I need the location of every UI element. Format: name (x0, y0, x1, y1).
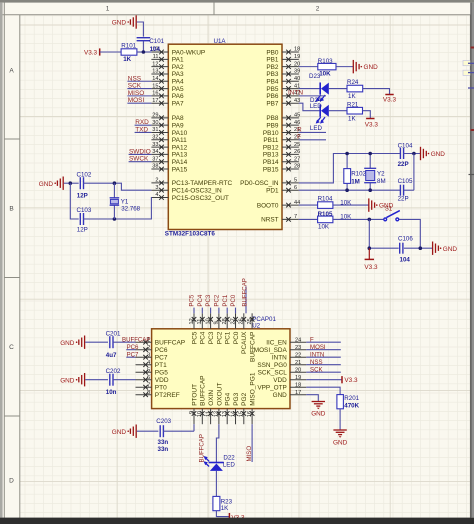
U2 pin 10 BUFFCAP (bottom) (197, 375, 207, 424)
svg-text:MOSI_SDA: MOSI_SDA (254, 347, 288, 354)
U1A pin 4 PC15-OSC32_OUT (151, 192, 229, 202)
svg-text:2: 2 (316, 6, 320, 13)
svg-text:PC15-OSC32_OUT: PC15-OSC32_OUT (172, 195, 229, 202)
wire R stub (PB10) (299, 131, 326, 133)
svg-text:F: F (310, 336, 314, 343)
wire BOOT0 to R104 (299, 204, 318, 206)
svg-text:15: 15 (152, 83, 158, 89)
value 470K (R201) (344, 402, 359, 409)
svg-text:32: 32 (152, 134, 158, 140)
U2 pin 7 PT0 (136, 382, 168, 391)
svg-text:PA3: PA3 (172, 71, 184, 78)
U1A pin 22 PB11 (263, 134, 300, 144)
value 10K (R104) (340, 199, 352, 206)
crystal Y1 (110, 183, 120, 219)
U1A pin 16 PA6 (151, 91, 184, 101)
svg-text:R103: R103 (318, 58, 333, 65)
svg-text:MOSI: MOSI (310, 344, 326, 351)
svg-text:PC3: PC3 (205, 294, 212, 306)
svg-text:45: 45 (294, 113, 300, 119)
svg-text:S1: S1 (385, 206, 393, 213)
resistor R201 (337, 395, 344, 409)
value 12P (C103) (77, 227, 88, 234)
designator Y1 (121, 198, 129, 205)
power V3.3 (R24) (383, 95, 397, 104)
svg-text:4: 4 (155, 192, 158, 198)
U2 pin 25 BUFFCAP (top) (247, 313, 257, 362)
designator C102 (77, 171, 92, 178)
wire R24 to V3.3 (363, 89, 390, 95)
svg-text:STM32F103C8T6: STM32F103C8T6 (165, 231, 216, 238)
node NRST junction (368, 218, 372, 222)
U2 pin 6 VDD (136, 375, 169, 384)
svg-text:PB0: PB0 (266, 49, 279, 56)
svg-text:11: 11 (205, 411, 211, 417)
power V3.3 (R23) (229, 513, 245, 521)
svg-text:26: 26 (239, 318, 245, 324)
net label PC1 (U2 top) (222, 294, 229, 306)
wire GND node down to C103 (70, 183, 78, 219)
net label NSS (128, 75, 141, 82)
svg-text:PA8: PA8 (172, 115, 184, 122)
wire NSS stub (127, 80, 151, 82)
value PCAP01 (252, 316, 276, 323)
designator Y2 (377, 171, 385, 178)
power GND (C106) (433, 242, 458, 255)
svg-text:PA14: PA14 (172, 159, 188, 166)
svg-text:BUFFCAP: BUFFCAP (241, 278, 248, 306)
capacitor C104 (400, 148, 403, 159)
wire pin18 to R201 (306, 387, 340, 394)
svg-text:C202: C202 (106, 368, 121, 375)
svg-text:C106: C106 (398, 236, 413, 243)
svg-text:37: 37 (152, 156, 158, 162)
svg-text:PC6: PC6 (155, 347, 168, 354)
U1A pin 21 PB10 (263, 127, 300, 137)
svg-text:1M: 1M (351, 179, 360, 186)
svg-text:B: B (9, 206, 13, 213)
svg-text:PC1: PC1 (222, 294, 229, 306)
earth ground (R201) (333, 430, 348, 446)
svg-text:PB13: PB13 (263, 152, 279, 159)
svg-text:33n: 33n (158, 446, 169, 453)
wire stub crossing right edge 3 (468, 87, 474, 89)
value 22P (C105) (398, 196, 409, 203)
U2 pin 19 VDD (273, 375, 306, 384)
op-amp U1A (STM32 MCU body) (168, 44, 282, 229)
svg-text:GND: GND (60, 340, 75, 347)
designator C203 (156, 418, 171, 425)
svg-text:PD1: PD1 (266, 188, 279, 195)
wire PC6 stub (U2 left) (126, 349, 135, 351)
svg-text:R: R (297, 126, 302, 133)
svg-text:PB7: PB7 (266, 100, 279, 107)
svg-text:PC6: PC6 (127, 344, 139, 351)
svg-text:27: 27 (230, 318, 236, 324)
U2 pin 28 PC1 (top) (222, 313, 232, 344)
net label MISO (U2 bottom) (246, 446, 253, 462)
resistor R105 (318, 216, 333, 223)
resistor R103 (318, 63, 336, 69)
svg-text:1K: 1K (221, 505, 229, 512)
svg-text:9: 9 (189, 411, 195, 414)
svg-text:2: 2 (155, 178, 158, 184)
net label RXD (135, 119, 149, 126)
wire SWDIO stub (129, 153, 152, 155)
wire C103 to Y1 bottom node (84, 218, 115, 220)
svg-text:PA12: PA12 (172, 144, 188, 151)
wire R101 to PA0 (137, 51, 152, 53)
wire PD0 to oscillator rail (299, 154, 400, 183)
wire GND to C201 (85, 341, 108, 343)
svg-text:GND: GND (431, 151, 446, 158)
svg-text:PA4: PA4 (172, 79, 184, 86)
U1A pin 18 PB0 (266, 47, 300, 57)
svg-text:22P: 22P (398, 161, 409, 168)
comment LED (second) (310, 125, 323, 132)
U2 pin 8 PT2REF (136, 390, 180, 399)
svg-text:10n: 10n (106, 389, 117, 396)
svg-text:12P: 12P (77, 192, 88, 199)
value 10n (106, 389, 117, 396)
value 1K (R101) (123, 56, 131, 63)
U1A pin 41 PB5 (266, 83, 300, 93)
net label NSS (U2 right) (310, 359, 323, 366)
svg-text:33: 33 (152, 142, 158, 148)
svg-text:20: 20 (295, 367, 301, 373)
designator C103 (77, 207, 92, 214)
LED D23 (316, 82, 329, 101)
power V3.3 (below C106 node) (364, 248, 378, 271)
net label PC6 (U2 left) (127, 344, 139, 351)
U1A pin 25 PB12 (263, 142, 300, 152)
U1A pin 43 PB7 (266, 98, 300, 108)
svg-text:PC7: PC7 (127, 351, 139, 358)
svg-text:C101: C101 (149, 38, 164, 45)
svg-text:PG5: PG5 (155, 370, 168, 377)
svg-text:GND: GND (60, 377, 75, 384)
svg-text:OXOUT: OXOUT (216, 383, 223, 406)
svg-text:PC5: PC5 (191, 331, 198, 344)
value 10K (R103) (319, 71, 331, 78)
svg-text:12: 12 (214, 411, 220, 417)
svg-text:GND: GND (112, 20, 127, 27)
wire PC1 stub (U2 top) (226, 308, 228, 314)
svg-text:PG2: PG2 (241, 392, 248, 405)
svg-text:A: A (9, 68, 14, 75)
value 8M (Y2) (377, 178, 386, 185)
net label PC2 (U2 top) (214, 294, 221, 306)
U2 pin 17 GND (273, 390, 307, 399)
U1A pin 32 PA11 (151, 134, 187, 144)
power V3.3 (R101) (84, 48, 100, 56)
svg-text:D23: D23 (309, 73, 321, 80)
svg-text:5: 5 (294, 178, 297, 184)
svg-text:PA0-WKUP: PA0-WKUP (172, 49, 205, 56)
wire MOSI stub (U2 right) (306, 349, 341, 351)
svg-text:13: 13 (152, 69, 158, 75)
svg-text:14: 14 (152, 76, 158, 82)
designator C106 (398, 236, 413, 243)
svg-text:SWCK: SWCK (129, 156, 149, 163)
net label MISO (128, 90, 144, 97)
power GND (R104) (369, 198, 394, 211)
U1A pin 19 PB1 (266, 54, 300, 64)
U1A pin 31 PA10 (151, 127, 187, 137)
designator R103 (318, 58, 333, 65)
svg-text:PG4: PG4 (225, 392, 232, 405)
svg-text:PC13-TAMPER-RTC: PC13-TAMPER-RTC (172, 180, 233, 187)
U1A pin 11 PA1 (151, 54, 184, 64)
svg-text:1: 1 (106, 6, 110, 13)
value 10K right (R105) (340, 214, 352, 221)
net label TXD (135, 126, 148, 133)
wire GND to node (64, 182, 71, 184)
U1A pin 10 PA0-WKUP (151, 47, 205, 57)
wire NRST to R105 (299, 218, 318, 220)
svg-text:PA11: PA11 (172, 137, 187, 144)
capacitor C201 (110, 336, 113, 348)
net label PC0 (U2 top) (230, 294, 237, 306)
designator R104 (318, 196, 333, 203)
svg-text:MISO_PG1: MISO_PG1 (250, 372, 257, 406)
wire PC0 stub (U2 top) (235, 308, 237, 314)
designator C202 (106, 368, 121, 375)
power GND (top, C101) (112, 15, 136, 28)
svg-text:RXD: RXD (135, 119, 149, 126)
U2 pin 15 PG2 (bottom) (239, 392, 249, 424)
svg-text:PB11: PB11 (263, 137, 279, 144)
svg-text:PB5: PB5 (266, 86, 279, 93)
capacitor C202 (110, 374, 113, 386)
svg-text:30: 30 (152, 120, 158, 126)
oscillator rail junctions (345, 152, 372, 192)
svg-text:25: 25 (247, 318, 253, 324)
svg-text:C103: C103 (77, 207, 92, 214)
designator R23 (221, 498, 233, 505)
svg-text:21: 21 (295, 360, 301, 366)
power GND (C203) (112, 425, 136, 438)
value 4u7 (106, 352, 117, 359)
wire F stub (U2 right) (306, 341, 341, 343)
designator C201 (106, 330, 121, 337)
U2 pin 21 SSN_PG0 (257, 360, 306, 369)
svg-text:12: 12 (152, 61, 158, 67)
wire NSS stub (U2 right) (306, 364, 341, 366)
wire SCK stub (U2 right) (306, 371, 341, 373)
LED D24 (316, 105, 329, 124)
svg-text:38: 38 (152, 164, 158, 170)
wire V3.3 to R101 (100, 51, 121, 53)
U2 pin 2 PC6 (136, 345, 168, 354)
designator S1 (385, 206, 393, 213)
svg-text:22: 22 (295, 352, 301, 358)
svg-text:PB1: PB1 (266, 57, 279, 64)
svg-text:TXD: TXD (135, 126, 148, 133)
net label PC7 (U2 left) (127, 351, 139, 358)
window left strip (0, 3, 3, 518)
wire PC3 stub (U2 top) (210, 308, 212, 314)
wire R105 to S1 (333, 218, 383, 220)
U1A pin 20 PB2 (266, 61, 300, 71)
U1A pin 17 PA7 (151, 98, 184, 108)
svg-text:C105: C105 (398, 178, 413, 185)
wire C105 to GND riser (404, 154, 414, 191)
net label INTN (U2 right) (310, 351, 324, 358)
crystal Y2 (364, 154, 376, 191)
svg-text:4u7: 4u7 (106, 352, 117, 359)
power GND (C104) (421, 147, 446, 160)
svg-text:BUFFCAP: BUFFCAP (122, 336, 150, 343)
wire RXD stub (135, 124, 152, 126)
wire MISO stub (127, 95, 151, 97)
wire PC5 stub (U2 top) (193, 308, 195, 314)
svg-text:PC7: PC7 (155, 355, 168, 362)
capacitor C106 (400, 243, 403, 254)
svg-text:PB12: PB12 (263, 144, 279, 151)
U1A pin 38 PA15 (151, 164, 187, 174)
svg-text:8M: 8M (377, 178, 386, 185)
U1A pin 46 PB9 (266, 120, 300, 130)
wire D22 to R23 (215, 471, 217, 497)
wire Y1 bottom to PC15 (114, 198, 151, 220)
svg-text:PCAP01: PCAP01 (252, 316, 276, 323)
svg-text:C201: C201 (106, 330, 121, 337)
wire pin19 to V3.3 (306, 379, 342, 381)
wire PC2 stub (U2 top) (218, 308, 220, 314)
wire stub crossing right edge 2 (468, 72, 474, 74)
svg-text:9: 9 (214, 321, 220, 324)
designator R21 (347, 102, 359, 109)
U2 pin 20 SCK_SCL (258, 367, 307, 376)
wire PC4 stub (U2 top) (201, 308, 203, 314)
svg-text:10K: 10K (319, 71, 331, 78)
U2 pin 5 PG5 (136, 367, 169, 376)
U1A pin 40 PB4 (266, 76, 300, 86)
net label SWDIO (129, 148, 151, 155)
svg-text:PG3: PG3 (233, 392, 240, 405)
svg-text:PB14: PB14 (263, 159, 279, 166)
net label F (U2 right) (310, 336, 314, 343)
wire C201 to U2 BUFFCAP pin (113, 341, 136, 343)
svg-text:R101: R101 (121, 43, 136, 50)
net label BUFFCAP (U2 top) (241, 278, 248, 306)
svg-text:PT0: PT0 (155, 385, 167, 392)
svg-text:1K: 1K (123, 56, 131, 63)
wire R104 to GND (333, 204, 369, 206)
designator D22 (223, 455, 235, 462)
value 1K (R24) (348, 93, 356, 100)
svg-text:14: 14 (230, 411, 236, 417)
svg-text:VPP_OTP: VPP_OTP (257, 385, 286, 392)
wire INTN stub (PB6) (299, 95, 326, 97)
svg-text:V3.3: V3.3 (344, 377, 358, 384)
svg-text:24: 24 (295, 337, 301, 343)
U2 pin 14 PG3 (bottom) (230, 392, 240, 424)
U1A pin 6 PD1 (266, 185, 299, 195)
svg-text:MISO: MISO (246, 446, 253, 462)
svg-text:PB6: PB6 (266, 93, 279, 100)
switch S1 (383, 211, 400, 222)
wire C104 to GND node (404, 153, 421, 155)
svg-text:3: 3 (147, 352, 150, 358)
U1A pin 12 PA2 (151, 61, 184, 71)
svg-text:PC1: PC1 (225, 331, 232, 344)
svg-text:GND: GND (273, 392, 288, 399)
power GND (C102) (39, 177, 63, 190)
wire C202 to U2 VDD pin (113, 379, 136, 381)
wire R103 to GND (336, 66, 353, 68)
U1A pin 7 NRST (261, 214, 299, 224)
svg-text:Y2: Y2 (377, 171, 385, 178)
svg-text:15: 15 (239, 411, 245, 417)
designator R102 (351, 171, 366, 178)
U2 pin 12 PC5 (top) (189, 313, 199, 344)
U1A pin 33 PA12 (151, 142, 187, 152)
net label F (297, 134, 301, 141)
resistor R23 (213, 496, 220, 510)
wire BUFFCAP stub (U2 top) (245, 287, 247, 314)
capacitor C103 (80, 213, 83, 225)
svg-text:PTOUT: PTOUT (191, 384, 198, 406)
svg-text:V3.3: V3.3 (383, 97, 397, 104)
svg-text:PA5: PA5 (172, 86, 184, 93)
resistor R24 (347, 85, 363, 92)
U2 pin 18 VPP_OTP (257, 382, 306, 391)
svg-text:PCAUX: PCAUX (241, 331, 248, 354)
wire R201 to GND (339, 409, 341, 430)
svg-text:8: 8 (147, 390, 150, 396)
svg-text:46: 46 (294, 120, 300, 126)
svg-text:OXIN: OXIN (208, 390, 215, 406)
capacitor C203 (160, 425, 163, 437)
svg-text:PT1: PT1 (155, 362, 167, 369)
designator U1A (214, 38, 227, 45)
svg-text:LED: LED (310, 125, 323, 132)
svg-text:23: 23 (295, 345, 301, 351)
LED D22 (204, 456, 224, 471)
svg-text:PC3: PC3 (208, 331, 215, 344)
designator D23 (309, 73, 321, 80)
svg-text:PA6: PA6 (172, 93, 184, 100)
wire GND to C202 (85, 379, 108, 381)
wire stub crossing right edge 1 (468, 62, 474, 64)
svg-text:PA13: PA13 (172, 152, 188, 159)
U2 pin 12 OXOUT (bottom) (214, 383, 224, 425)
svg-text:R102: R102 (351, 171, 366, 178)
value 33n duplicate (158, 446, 169, 453)
U1A pin 27 PB14 (263, 156, 300, 166)
net label INTN (PB6) (288, 90, 303, 97)
mark right edge maroon 2 (471, 129, 474, 131)
svg-text:SCK: SCK (310, 366, 323, 373)
svg-text:18: 18 (294, 47, 300, 53)
svg-text:C104: C104 (398, 143, 413, 150)
svg-text:18: 18 (295, 382, 301, 388)
U1A pin 28 PB15 (263, 164, 300, 174)
svg-text:C203: C203 (156, 418, 171, 425)
value 22P (C104) (398, 161, 409, 168)
svg-text:BOOT0: BOOT0 (257, 202, 279, 209)
net label SCK (U2 right) (310, 366, 323, 373)
svg-text:16: 16 (247, 411, 253, 417)
svg-text:PB15: PB15 (263, 166, 279, 173)
U2 pin 11 OXIN (bottom) (205, 390, 215, 425)
value 10K below (R105) (318, 224, 330, 231)
svg-text:R104: R104 (318, 196, 333, 203)
U1A pin 14 PA4 (151, 76, 184, 86)
power V3.3 (R21) (365, 119, 379, 129)
